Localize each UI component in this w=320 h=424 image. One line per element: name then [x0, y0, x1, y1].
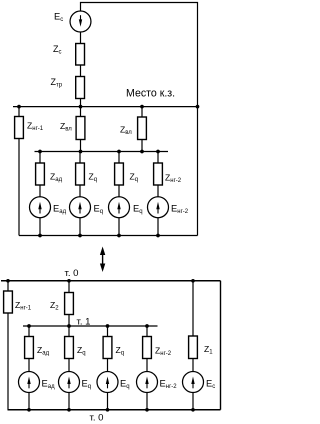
junction т.1/Znг-2 [145, 324, 149, 328]
resistor Zvl1 [76, 117, 85, 140]
junction bus2/Zvl2 [140, 150, 144, 154]
junction bus1/Znг-1 [17, 105, 21, 109]
wire Ec to bottom wire [192, 393, 194, 410]
wire top loop from Ec to right edge [81, 3, 198, 236]
junction bottom/Eq2 [106, 408, 110, 412]
resistor Z1 [189, 336, 198, 359]
wire branch Zq1 vertical [79, 152, 81, 197]
resistor Znг-1 (bottom schematic) [4, 291, 13, 313]
resistor Znг-2 [154, 163, 163, 185]
resistor Zq2 [115, 163, 124, 185]
source Ead (bottom, arrow up) [19, 372, 40, 393]
source Ead (arrow up) [30, 197, 51, 218]
junction bottom/Ec [191, 408, 195, 412]
junction bus2/Zq1 [117, 150, 121, 154]
wire Zc to Ztr [80, 65, 82, 77]
resistor Ztr [76, 77, 85, 99]
source Ec (system EMF, arrow down) [70, 11, 91, 32]
resistor Z2 [65, 293, 74, 315]
junction bottom/Ead [38, 234, 42, 238]
junction т.1/Z2 [67, 324, 71, 328]
equivalence double arrow [100, 247, 105, 273]
wire top bus т.0 [1, 280, 221, 282]
wire branch Zq2 vertical [118, 152, 120, 197]
resistor Zq2 (bottom) [103, 337, 112, 359]
wire bus2 [35, 151, 169, 153]
junction bus2/Zad [38, 150, 42, 154]
junction bottom/Enг-2 [156, 234, 160, 238]
wire branch Z1 vertical [192, 281, 194, 371]
svg-text:т. 0: т. 0 [90, 412, 104, 423]
source Enг-2 (arrow up) [148, 197, 169, 218]
wire Enг-2 to bottom wire [157, 218, 159, 236]
junction bus2/Znг-2 [156, 150, 160, 154]
wire bottom bus т.0 [8, 409, 221, 411]
junction bottom/Eq2 [117, 234, 121, 238]
junction bus1/Zvl2 [140, 105, 144, 109]
wire Ead to bottom wire [28, 393, 30, 410]
wire Eq1 to bottom wire [68, 393, 70, 410]
wire branch Znг-2 vertical [146, 326, 148, 371]
resistor Zvl2 [138, 117, 147, 140]
wire bus т.1 [23, 325, 158, 327]
wire Ztr to bus1 [80, 99, 82, 107]
wire right edge [220, 281, 222, 410]
source Eq2 (bottom, arrow up) [97, 372, 118, 393]
wire Zvl1 branch vertical [80, 107, 82, 152]
resistor Znг-1 [15, 117, 24, 139]
junction bus1/Ztr [79, 105, 83, 109]
junction bottom/Enг-2 [145, 408, 149, 412]
wire branch Zq2 vertical [107, 326, 109, 371]
junction т.0/Z1 [191, 279, 195, 283]
wire Enг-2 to bottom wire [146, 393, 148, 410]
junction т.0/Z2 [67, 279, 71, 283]
wire branch Znг-2 vertical [157, 152, 159, 197]
wire branch Zad vertical [28, 326, 30, 371]
wire Zvl2 branch vertical [141, 107, 143, 152]
wire Znг-1 branch vertical [18, 107, 20, 236]
junction bottom/Eq1 [67, 408, 71, 412]
svg-text:Место к.з.: Место к.з. [126, 88, 175, 100]
wire bottom of top schematic [19, 235, 198, 237]
source Enг-2 (bottom, arrow up) [137, 372, 158, 393]
wire Z2 branch vertical [68, 281, 70, 326]
wire Eq2 to bottom wire [118, 218, 120, 236]
source Eq1 (arrow up) [70, 197, 91, 218]
junction т.1/Zad [27, 324, 31, 328]
svg-text:т. 0: т. 0 [65, 268, 79, 279]
wire Ead to bottom wire [39, 218, 41, 236]
wire Znг-1 branch vertical [7, 281, 9, 410]
source Eq2 (arrow up) [109, 197, 130, 218]
resistor Zad (bottom) [25, 337, 34, 359]
junction т.0/Znг-1 [6, 279, 10, 283]
wire branch Zad vertical [39, 152, 41, 197]
resistor Zq1 (bottom) [65, 337, 74, 359]
source Eq1 (bottom, arrow up) [59, 372, 80, 393]
resistor Znг-2 (bottom) [143, 337, 152, 359]
source Ec (bottom, arrow up) [183, 372, 204, 393]
wire Eq1 to bottom wire [79, 218, 81, 236]
wire Eq2 to bottom wire [107, 393, 109, 410]
junction т.1/Zq1 [106, 324, 110, 328]
junction bottom/Eq1 [78, 234, 82, 238]
wire bus1 (fault bus) [13, 106, 198, 108]
wire Ec to Zc [80, 32, 82, 43]
wire branch Zq1 vertical [68, 326, 70, 371]
junction bottom/Ead [27, 408, 31, 412]
resistor Zad [36, 163, 45, 185]
junction bus2/Zvl1 [79, 150, 83, 154]
junction bus1/right edge [196, 105, 200, 109]
resistor Zc [76, 44, 85, 66]
resistor Zq1 [76, 163, 85, 185]
